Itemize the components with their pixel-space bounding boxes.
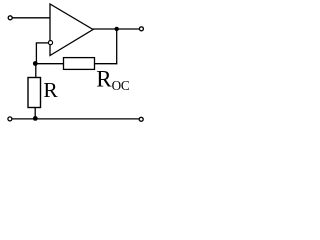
wire: node down to R top lead [35,64,37,78]
resistor Roc (body) [64,58,95,70]
wire: node up [35,43,37,64]
wire: feedback vertical drop [116,29,118,64]
ground terminal (bottom right) [139,117,143,121]
svg-text:R: R [43,78,58,102]
wire: feedback to Roc right lead [95,63,118,65]
wire: R bottom lead [34,108,36,119]
wire: input to op-amp + input [12,17,50,19]
node: inverting input junction dot [33,61,38,66]
svg-text:ROC: ROC [96,66,130,93]
input terminal (top left) [8,16,12,20]
resistor R (body) [28,78,41,108]
wire: bottom rail [12,118,139,120]
output terminal (right) [139,27,143,31]
inverting input bubble [48,41,52,45]
ground terminal (bottom left) [8,117,12,121]
wire: over to inverting bubble [36,42,49,44]
node: ground rail junction dot [33,116,38,121]
node: output junction dot [115,27,119,31]
wire: op-amp output [93,28,139,30]
op-amp U1 (triangle) [50,4,93,56]
wire: Roc left lead to node [35,63,64,65]
